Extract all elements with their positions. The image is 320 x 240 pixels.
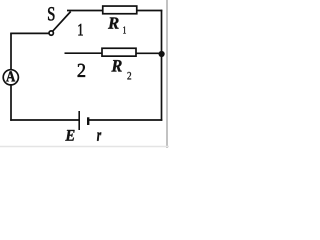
wire: contact 2 to R2 xyxy=(65,52,104,54)
battery E short plate xyxy=(87,117,89,125)
switch S pivot xyxy=(49,31,53,35)
label 2 (throw contact 2) xyxy=(78,64,85,77)
wire: right vertical rail xyxy=(161,10,163,121)
ammeter A xyxy=(3,70,18,85)
label R2 xyxy=(111,60,131,79)
label S xyxy=(48,7,54,20)
resistor R2 xyxy=(102,48,136,56)
wire: R2 to junction xyxy=(136,52,162,54)
table border bottom (light gray) xyxy=(0,146,169,148)
label r (internal resistance) xyxy=(97,132,101,140)
resistor R1 xyxy=(103,6,137,14)
label E (emf) xyxy=(65,130,74,141)
wire: left rail lower segment xyxy=(10,85,12,121)
switch S blade xyxy=(53,12,71,32)
battery E long plate xyxy=(78,111,80,130)
wire: contact 1 to R1 xyxy=(67,10,103,12)
wire: left rail upper segment xyxy=(10,33,12,69)
wire: R1 to right rail xyxy=(137,10,163,12)
wire: bottom rail left to battery xyxy=(10,119,78,121)
label R1 xyxy=(108,17,126,33)
wire: top-left horizontal to switch xyxy=(10,32,49,34)
table border right (gray) xyxy=(166,0,168,148)
junction node xyxy=(159,51,165,57)
label 1 (throw contact 1) xyxy=(78,24,82,35)
wire: battery to bottom-right corner xyxy=(88,119,162,121)
